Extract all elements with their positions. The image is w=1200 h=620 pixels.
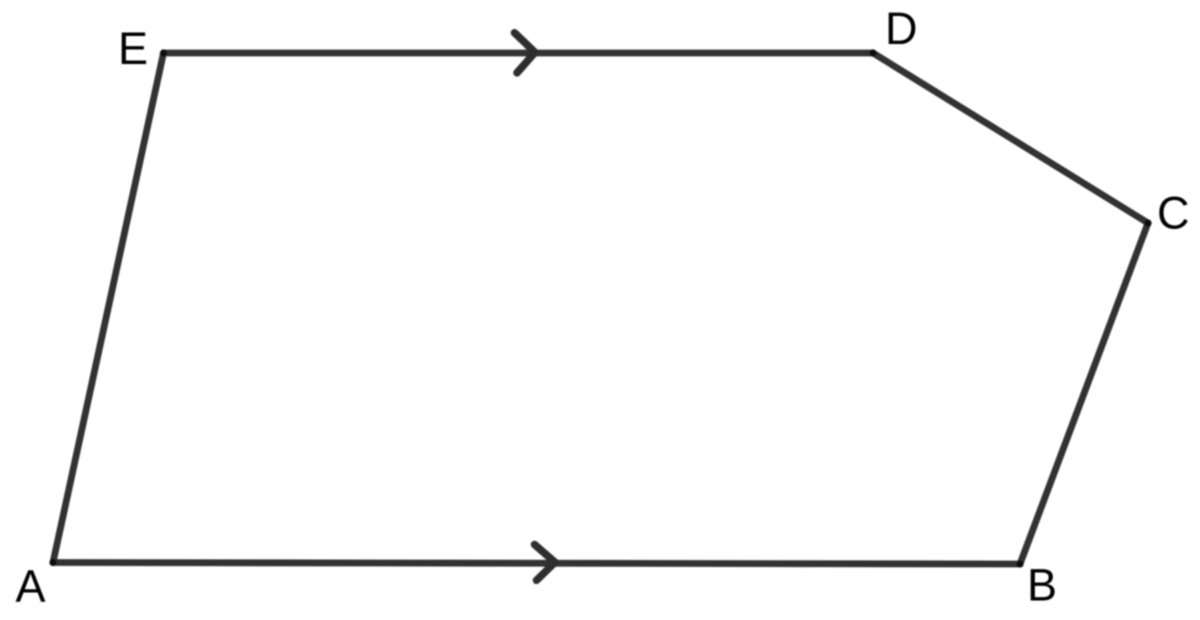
vertex point E — [160, 49, 167, 56]
svg-text:C: C — [1157, 188, 1190, 239]
svg-text:E: E — [118, 23, 148, 74]
side BC — [1020, 223, 1148, 564]
vertex point C — [1144, 219, 1151, 226]
side CD — [873, 53, 1148, 223]
vertex point B — [1016, 560, 1023, 567]
side AB — [53, 563, 1020, 565]
side DE — [164, 50, 874, 57]
vertex point D — [869, 49, 876, 56]
svg-text:A: A — [16, 561, 46, 612]
svg-text:D: D — [885, 3, 918, 54]
svg-text:B: B — [1027, 560, 1057, 611]
parallel mark on DE — [515, 33, 536, 73]
parallel mark on AB — [535, 545, 556, 581]
vertex point A — [49, 559, 56, 566]
side EA — [53, 53, 164, 563]
